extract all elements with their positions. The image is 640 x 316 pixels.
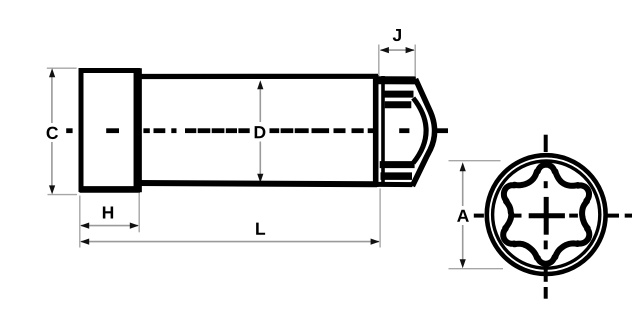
side view centerline xyxy=(66,128,72,133)
tip facet line 4 xyxy=(381,172,413,180)
tip inner facet arc xyxy=(413,98,426,163)
tip top edge xyxy=(376,76,416,84)
extension line L right xyxy=(379,189,381,248)
arrowhead J left xyxy=(380,47,389,53)
torx recess star xyxy=(503,165,589,264)
body bottom edge xyxy=(138,183,377,184)
arrowhead C down xyxy=(49,185,55,194)
label A xyxy=(457,210,469,222)
extension line A top xyxy=(449,160,501,162)
label L xyxy=(256,223,265,235)
end view horizontal centerline xyxy=(474,214,484,218)
label J xyxy=(393,29,401,41)
screw head rectangle xyxy=(81,71,138,190)
arrowhead D up xyxy=(257,80,263,89)
extension line C bottom xyxy=(48,194,78,196)
arrowhead J right xyxy=(406,47,415,53)
dimension D line xyxy=(259,85,261,178)
tip base facet line xyxy=(381,76,385,187)
arrowhead H left xyxy=(80,223,89,229)
tip outer point silhouette xyxy=(412,79,434,186)
body right edge xyxy=(373,75,379,187)
dimension L line xyxy=(81,241,379,243)
arrowhead C up xyxy=(49,68,55,77)
tip facet line 1 xyxy=(382,91,414,98)
center mark cross horizontal xyxy=(529,213,565,218)
arrowhead H right xyxy=(130,223,139,229)
dimension J line xyxy=(381,49,415,51)
extension line H/L left xyxy=(79,196,81,248)
label C xyxy=(47,127,58,139)
tip facet line 3 xyxy=(380,161,415,168)
extension line A bottom xyxy=(449,268,504,270)
tip bottom edge xyxy=(377,182,412,187)
arrowhead A up xyxy=(460,162,466,171)
body top edge xyxy=(138,74,378,79)
end view outer circle xyxy=(487,155,606,274)
dimension A line xyxy=(462,168,464,206)
arrowhead L right xyxy=(371,239,380,245)
extension line C top xyxy=(47,67,77,69)
screw head bottom edge xyxy=(80,186,141,193)
extension line J left xyxy=(378,45,380,77)
arrowhead L left xyxy=(80,239,89,245)
arrowhead D down xyxy=(257,174,263,183)
center mark cross vertical xyxy=(544,197,549,235)
dimension C line xyxy=(51,75,53,123)
tip facet line 2 xyxy=(385,101,412,108)
extension line J right xyxy=(414,45,416,77)
end view inner circle xyxy=(493,161,600,268)
label H xyxy=(103,206,113,218)
arrowhead A down xyxy=(460,259,466,268)
dimension H line xyxy=(81,225,138,227)
head/body junction line xyxy=(134,68,142,192)
label D xyxy=(250,122,270,142)
end view vertical centerline xyxy=(544,135,548,152)
extension line H right xyxy=(138,193,140,232)
